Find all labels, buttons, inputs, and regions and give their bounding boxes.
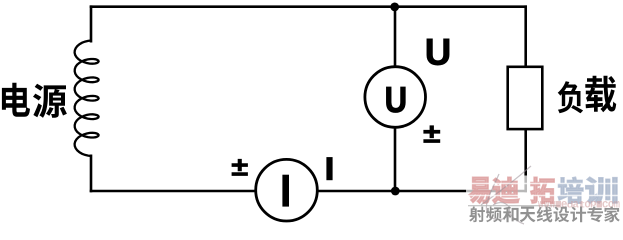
label 负载 (load) [558,76,617,114]
voltmeter letter U [387,87,406,112]
watermark slogan 射频和天线设计专家 [469,207,620,223]
wire right vertical upper (top wire to load) [524,5,527,68]
watermark swoosh stroke [481,166,531,224]
wire left vertical lower (coil bottom to bottom wire) [90,155,93,193]
junction node (top) [390,3,399,12]
inductor L1 coil (source winding) [75,41,99,157]
wire top (source top to load top) [90,5,527,8]
watermark logo text 易迪拓 (red) [469,177,554,203]
watermark white streaks [467,184,618,196]
watermark underline [468,205,560,207]
polarity mark ± (ammeter) [232,159,248,175]
wire voltmeter branch upper [394,7,397,68]
voltmeter V1 circle [365,67,426,128]
wire right vertical lower (load to bottom wire) [524,128,527,192]
junction node (bottom) [391,187,400,196]
watermark background patch [466,176,623,228]
ammeter A1 circle [256,159,318,221]
label U (voltage) [427,39,449,65]
wire left vertical upper (to coil top) [90,5,93,42]
label 电源 (power source) [2,83,67,118]
watermark logo text 培训 (blue) [558,177,617,203]
label I (current) [326,157,332,180]
wire voltmeter branch lower [394,126,397,191]
wire bottom right (ammeter to load bottom) [317,190,528,193]
polarity mark ± (voltmeter) [424,126,440,143]
wire bottom left (source bottom to ammeter) [90,190,257,193]
ammeter letter I [282,175,289,207]
load RL rectangle [508,67,543,129]
watermark url text [538,201,620,208]
